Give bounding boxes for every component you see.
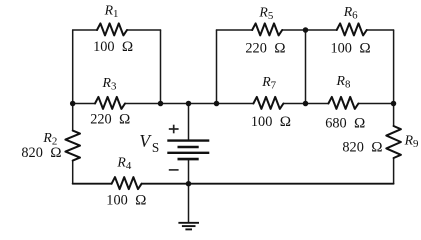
wire main middle rail segments — [73, 103, 95, 105]
node junction rail-left (R2 top) — [70, 101, 76, 107]
svg-text:100 Ω: 100 Ω — [106, 191, 146, 208]
svg-text:R7: R7 — [261, 74, 276, 92]
wire top-left loop top rail — [73, 29, 97, 31]
resistor R6 — [337, 23, 367, 35]
resistor R7 — [253, 97, 283, 109]
node junction rail-loop2 middle leg — [303, 101, 309, 107]
svg-text:680 Ω: 680 Ω — [325, 115, 365, 132]
wire battery top lead — [188, 104, 190, 141]
node junction rail-loop2 left leg — [214, 101, 220, 107]
svg-text:R1: R1 — [104, 3, 119, 21]
svg-text:R6: R6 — [343, 4, 358, 22]
ground — [178, 223, 199, 230]
wire loop2 middle vertical — [305, 30, 307, 104]
wire loop1 right vertical — [160, 30, 162, 104]
wire left vertical (top loop left / R2 branch) — [72, 30, 74, 131]
resistor R2 — [65, 131, 80, 161]
svg-text:R9: R9 — [404, 132, 419, 150]
node junction top rail R5/R6 — [303, 27, 309, 33]
wire bottom rail — [73, 183, 394, 185]
svg-text:R5: R5 — [258, 5, 273, 23]
voltage source VS battery plates — [167, 141, 209, 160]
svg-text:220 Ω: 220 Ω — [90, 111, 130, 128]
wire top-right loop top rail — [217, 29, 253, 31]
svg-text:100 Ω: 100 Ω — [251, 113, 291, 130]
wire battery bottom lead — [188, 159, 190, 184]
resistor R4 — [112, 177, 142, 189]
node junction rail-battery top — [186, 101, 192, 107]
svg-text:R3: R3 — [102, 75, 117, 93]
wire ground lead — [188, 184, 190, 222]
battery plus sign — [169, 125, 179, 134]
resistor R1 — [97, 23, 127, 35]
svg-text:VS: VS — [139, 131, 159, 155]
wire loop2 left vertical — [216, 30, 218, 104]
resistor R9 — [386, 126, 401, 158]
node junction rail-right (R9 top) — [391, 101, 397, 107]
wire right vertical (R9 branch) — [393, 30, 395, 126]
battery minus sign — [169, 169, 179, 171]
svg-text:R4: R4 — [116, 154, 131, 172]
resistor R5 — [252, 23, 282, 35]
node junction bottom rail-battery — [186, 181, 192, 187]
node junction rail-R1 right leg — [158, 101, 164, 107]
resistor R8 — [328, 97, 358, 109]
svg-text:820 Ω: 820 Ω — [21, 144, 61, 161]
svg-text:100 Ω: 100 Ω — [93, 38, 133, 55]
svg-text:R8: R8 — [336, 73, 351, 91]
svg-text:820 Ω: 820 Ω — [342, 138, 382, 155]
resistor R3 — [95, 97, 125, 109]
svg-text:220 Ω: 220 Ω — [245, 39, 285, 56]
svg-text:100 Ω: 100 Ω — [331, 39, 371, 56]
